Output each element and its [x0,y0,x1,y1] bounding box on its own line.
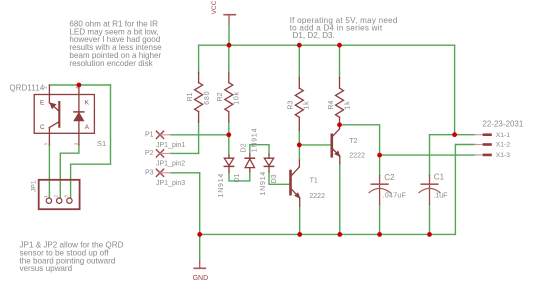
svg-text:.047uF: .047uF [383,192,407,199]
resistor R2 [225,72,233,121]
junction: rail / R3 [297,43,302,48]
JP1 pad 3 [67,198,72,203]
junction: rail / C2 [377,232,382,237]
svg-text:P3: P3 [145,169,154,176]
junction: R4 / T2 collector [337,122,342,127]
optocoupler S1 QRD1114 box [34,95,94,134]
S1 phototransistor [49,85,59,145]
wire: C1 bottom to rail [429,204,431,234]
junction: rail / GND [197,232,202,237]
ground symbol GND [194,261,205,269]
wire: node to D1 anode [228,135,230,156]
svg-text:JP1_pin2: JP1_pin2 [156,161,185,168]
JP1 pad 1 [46,198,51,203]
wire: QRD top row [49,84,110,86]
JP1 pin numbers [43,195,69,198]
svg-text:2222: 2222 [349,153,365,160]
wire: X1-2 drop to ground rail [454,145,456,235]
diode D2 (inverted) [245,154,254,171]
wire: R2 bottom to P1 node [228,122,230,135]
svg-text:X1-2: X1-2 [496,142,511,149]
wire: R3 bottom to node [298,130,300,145]
svg-text:JP1_pin3: JP1_pin3 [156,180,185,187]
svg-text:1N914: 1N914 [218,173,225,198]
capacitor C2 [369,176,390,205]
wire: R3 top lead [298,45,300,77]
wire: T1 collector up to node [298,145,300,160]
svg-text:T2: T2 [349,138,357,145]
svg-text:X1-1: X1-1 [496,132,511,139]
svg-text:E: E [40,99,44,106]
junction: rail / T2 emitter [337,232,342,237]
wire: D1 cathode jog to D2 anode [229,172,250,181]
wire: QRD anode jog to JP1 pin2 [60,145,79,198]
connector pin X1-3 [475,154,491,156]
svg-text:VCC: VCC [211,0,218,14]
wire: bottom ground rail [200,233,456,235]
S1 infrared LED [74,85,84,145]
svg-text:GND: GND [193,275,209,282]
resistor R1 [195,72,203,121]
connector pin X1-2 [475,144,491,146]
svg-text:R3: R3 [288,101,295,110]
wire: P1 row [171,134,229,136]
wire: output row to X1-3 [380,154,475,156]
svg-text:X1-3: X1-3 [496,152,511,159]
svg-text:R4: R4 [328,101,335,110]
junction: rail / R4 [337,43,342,48]
wire: R1 bottom to P2 row [198,122,200,154]
wire: C2 bottom to rail [379,204,381,234]
svg-text:D1, D2, D3.: D1, D2, D3. [293,31,335,40]
wire: C1 top lead from VCC row [429,135,431,176]
header JP1 box [39,180,80,209]
transistor T1 [291,160,300,206]
wire: R4 node right and down to output node [340,125,380,155]
wire: VCC stem to rail [228,24,230,45]
wire: R1 top lead [198,45,200,72]
note: 5V comment [290,16,398,40]
svg-text:1k: 1k [303,101,310,110]
junction: QRD top [77,83,82,88]
JP1 pad 2 [57,198,62,203]
svg-text:S1: S1 [97,139,106,148]
wire: X1-2 row [455,144,474,146]
junction: VCC / R2 [227,43,232,48]
wire: R2 top lead [228,45,230,72]
wire: T2 emitter down to rail [339,164,341,235]
wire: VCC drop to X1-1 [454,45,456,135]
resistor R4 [336,78,344,125]
S1 pin numbers [43,86,80,146]
svg-text:2222: 2222 [309,193,325,200]
svg-text:T1: T1 [310,178,318,185]
svg-text:C: C [40,124,45,131]
svg-text:10k: 10k [234,91,241,105]
wire: node to T2 base [299,144,330,146]
junction: rail / C1 [427,232,432,237]
svg-text:680: 680 [204,91,211,105]
junction: rail / T1 emitter [297,232,302,237]
svg-text:C2: C2 [384,173,395,182]
svg-text:R1: R1 [187,92,194,101]
svg-text:QRD1114: QRD1114 [10,84,45,93]
junction: VCC / X1-1 [452,132,457,137]
capacitor C1 [419,176,440,205]
wire: QRD collector to JP1 pin1 [48,145,50,198]
connector pin X1-1 [475,134,491,136]
svg-text:JP1: JP1 [30,180,37,192]
junction: P1 / R2 / D1 [226,132,231,137]
svg-text:D3: D3 [271,174,278,183]
svg-text:1N914: 1N914 [251,128,258,153]
svg-text:C1: C1 [434,173,445,182]
junction: R3 / T1 / T2 base [297,143,302,148]
svg-text:P2: P2 [145,150,154,157]
svg-text:1k: 1k [345,101,352,110]
svg-text:resolution encoder disk: resolution encoder disk [69,59,153,68]
wire: D2 cathode bracket to D3 anode [250,145,269,155]
svg-text:R2: R2 [217,92,224,101]
note: JP1 JP2 comment [20,241,124,274]
vcc supply symbol VCC [224,15,235,24]
diode D3 [264,154,273,171]
wire: QRD pin4 drop to JP1 pin3 [71,85,111,198]
wire: P2 to R1 [171,152,199,154]
svg-text:1N914: 1N914 [260,171,267,196]
junction: output node / C2 [377,153,382,158]
wire: C2 top lead [379,155,381,175]
svg-text:22-23-2031: 22-23-2031 [482,120,523,129]
note: 680 ohm comment [69,19,162,68]
wire: R4 top lead [339,45,341,77]
svg-text:.1uF: .1uF [433,192,447,199]
pin P3 [156,169,170,176]
wire: GND stem [199,234,201,260]
svg-text:P1: P1 [145,131,154,138]
S1 pin letters [40,99,90,131]
wire: top VCC rail [199,44,455,46]
svg-text:JP1_pin1: JP1_pin1 [156,142,185,149]
wire: T1 emitter down to rail [299,206,301,235]
wire: D3 cathode to T1 base [269,172,289,185]
svg-text:versus upward: versus upward [20,264,73,273]
pin P2 [156,150,170,157]
wire: P3 row [171,172,200,174]
resistor R3 [295,78,303,131]
wire: X1-1 row [430,134,475,136]
svg-text:D1: D1 [234,173,241,182]
pin P1 [156,131,170,138]
transistor T2 [332,125,340,164]
diode D1 [224,155,233,172]
wire: P3 column to rail [199,173,201,235]
svg-text:D2: D2 [241,143,248,152]
